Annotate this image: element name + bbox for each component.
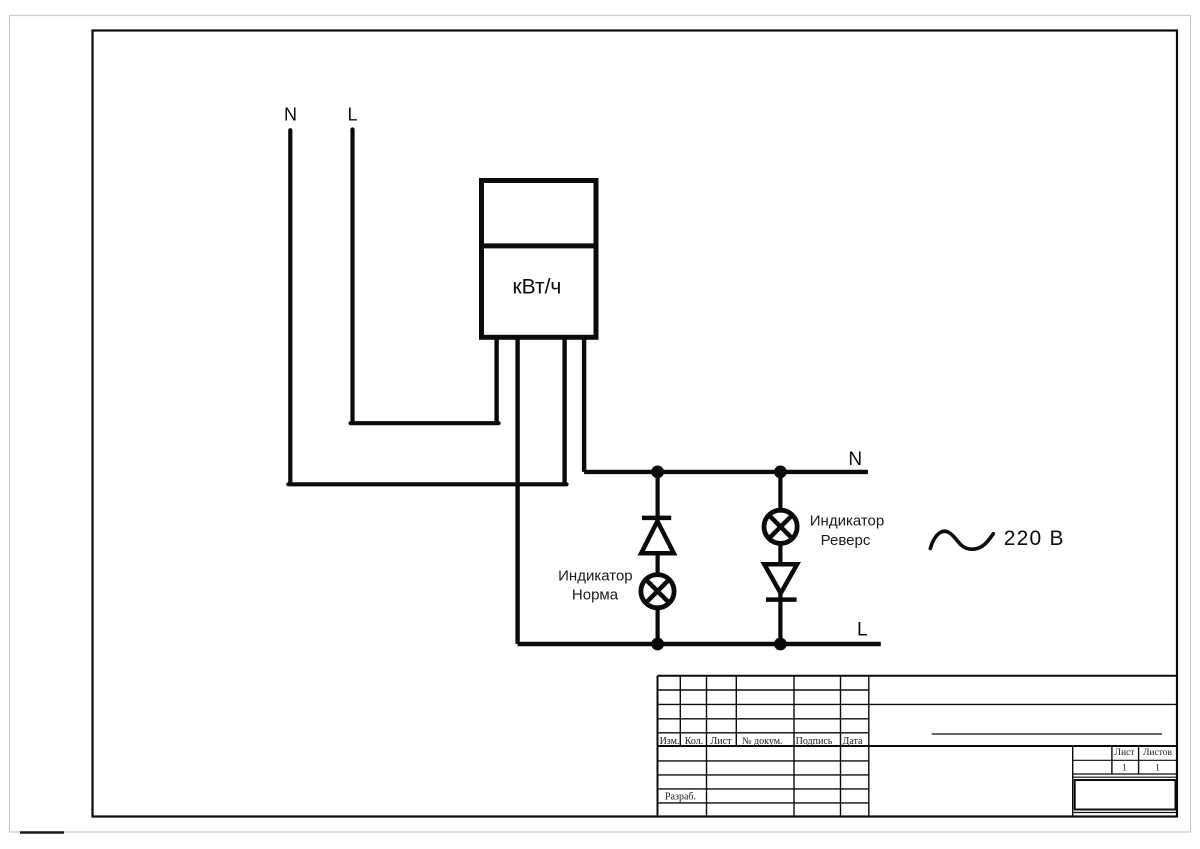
junction dot: Норма branch / L rail bbox=[651, 638, 664, 651]
wire meter pin 1 (down to L input corner) bbox=[494, 340, 498, 426]
svg-text:Листов: Листов bbox=[1143, 748, 1173, 758]
title block header labels bbox=[660, 736, 1173, 803]
junction dot: Реверс branch / N rail bbox=[774, 466, 787, 479]
svg-text:1: 1 bbox=[1122, 764, 1127, 774]
svg-text:Подпись: Подпись bbox=[796, 736, 833, 747]
title block (основная надпись) bbox=[658, 676, 1178, 817]
svg-text:Лист: Лист bbox=[711, 736, 733, 747]
junction dot: Реверс branch / L rail bbox=[774, 638, 787, 651]
svg-text:Дата: Дата bbox=[843, 736, 863, 747]
lamp HL2 (Индикатор Реверс) bbox=[764, 510, 797, 543]
svg-text:Разраб.: Разраб. bbox=[665, 792, 696, 803]
svg-text:N: N bbox=[848, 449, 862, 470]
outer and thick lines bbox=[658, 676, 1178, 817]
svg-text:Индикатор: Индикатор bbox=[558, 567, 633, 584]
svg-text:L: L bbox=[857, 620, 868, 641]
junction dot: Норма branch / N rail bbox=[651, 466, 664, 479]
wire L input: vertical drop and horizontal run to meter pin 1 bbox=[351, 130, 499, 424]
right section bbox=[1072, 746, 1074, 817]
svg-text:1: 1 bbox=[1155, 764, 1160, 774]
svg-text:220 В: 220 В bbox=[1004, 527, 1065, 550]
document designation underline bbox=[932, 733, 1162, 735]
wire meter pin 4 (down then right: N rail) bbox=[584, 340, 868, 472]
svg-text:N: N bbox=[284, 105, 297, 125]
diode VD1 (Норма branch, pointing up) bbox=[641, 518, 674, 553]
svg-text:Изм.: Изм. bbox=[660, 736, 680, 747]
svg-text:Норма: Норма bbox=[572, 587, 619, 604]
wire N input: vertical drop and horizontal run to meter pin 3 bbox=[288, 130, 566, 484]
AC source symbol (sine wave) bbox=[930, 531, 993, 549]
svg-text:кВт/ч: кВт/ч bbox=[512, 276, 561, 299]
svg-text:Кол.: Кол. bbox=[685, 736, 704, 747]
meter M1 (кВт/ч electricity meter) bbox=[479, 181, 599, 338]
diode VD2 (Реверс branch, pointing down) bbox=[764, 564, 797, 599]
wire meter pin 2 (down to L rail) bbox=[518, 340, 881, 645]
wire meter pin 3 (down to N input run) bbox=[562, 340, 566, 487]
svg-text:Реверс: Реверс bbox=[821, 532, 871, 549]
wire branch Реверс (vertical between rails) bbox=[778, 472, 782, 644]
left section thin rows bbox=[658, 690, 869, 733]
wire branch Норма (vertical between rails) bbox=[655, 472, 659, 644]
svg-text:L: L bbox=[347, 105, 357, 125]
left section verticals bbox=[680, 676, 736, 746]
lamp HL1 (Индикатор Норма) bbox=[641, 575, 674, 608]
svg-text:Индикатор: Индикатор bbox=[810, 513, 885, 530]
svg-text:№ докум.: № докум. bbox=[742, 736, 783, 747]
svg-text:Лист: Лист bbox=[1115, 748, 1136, 758]
